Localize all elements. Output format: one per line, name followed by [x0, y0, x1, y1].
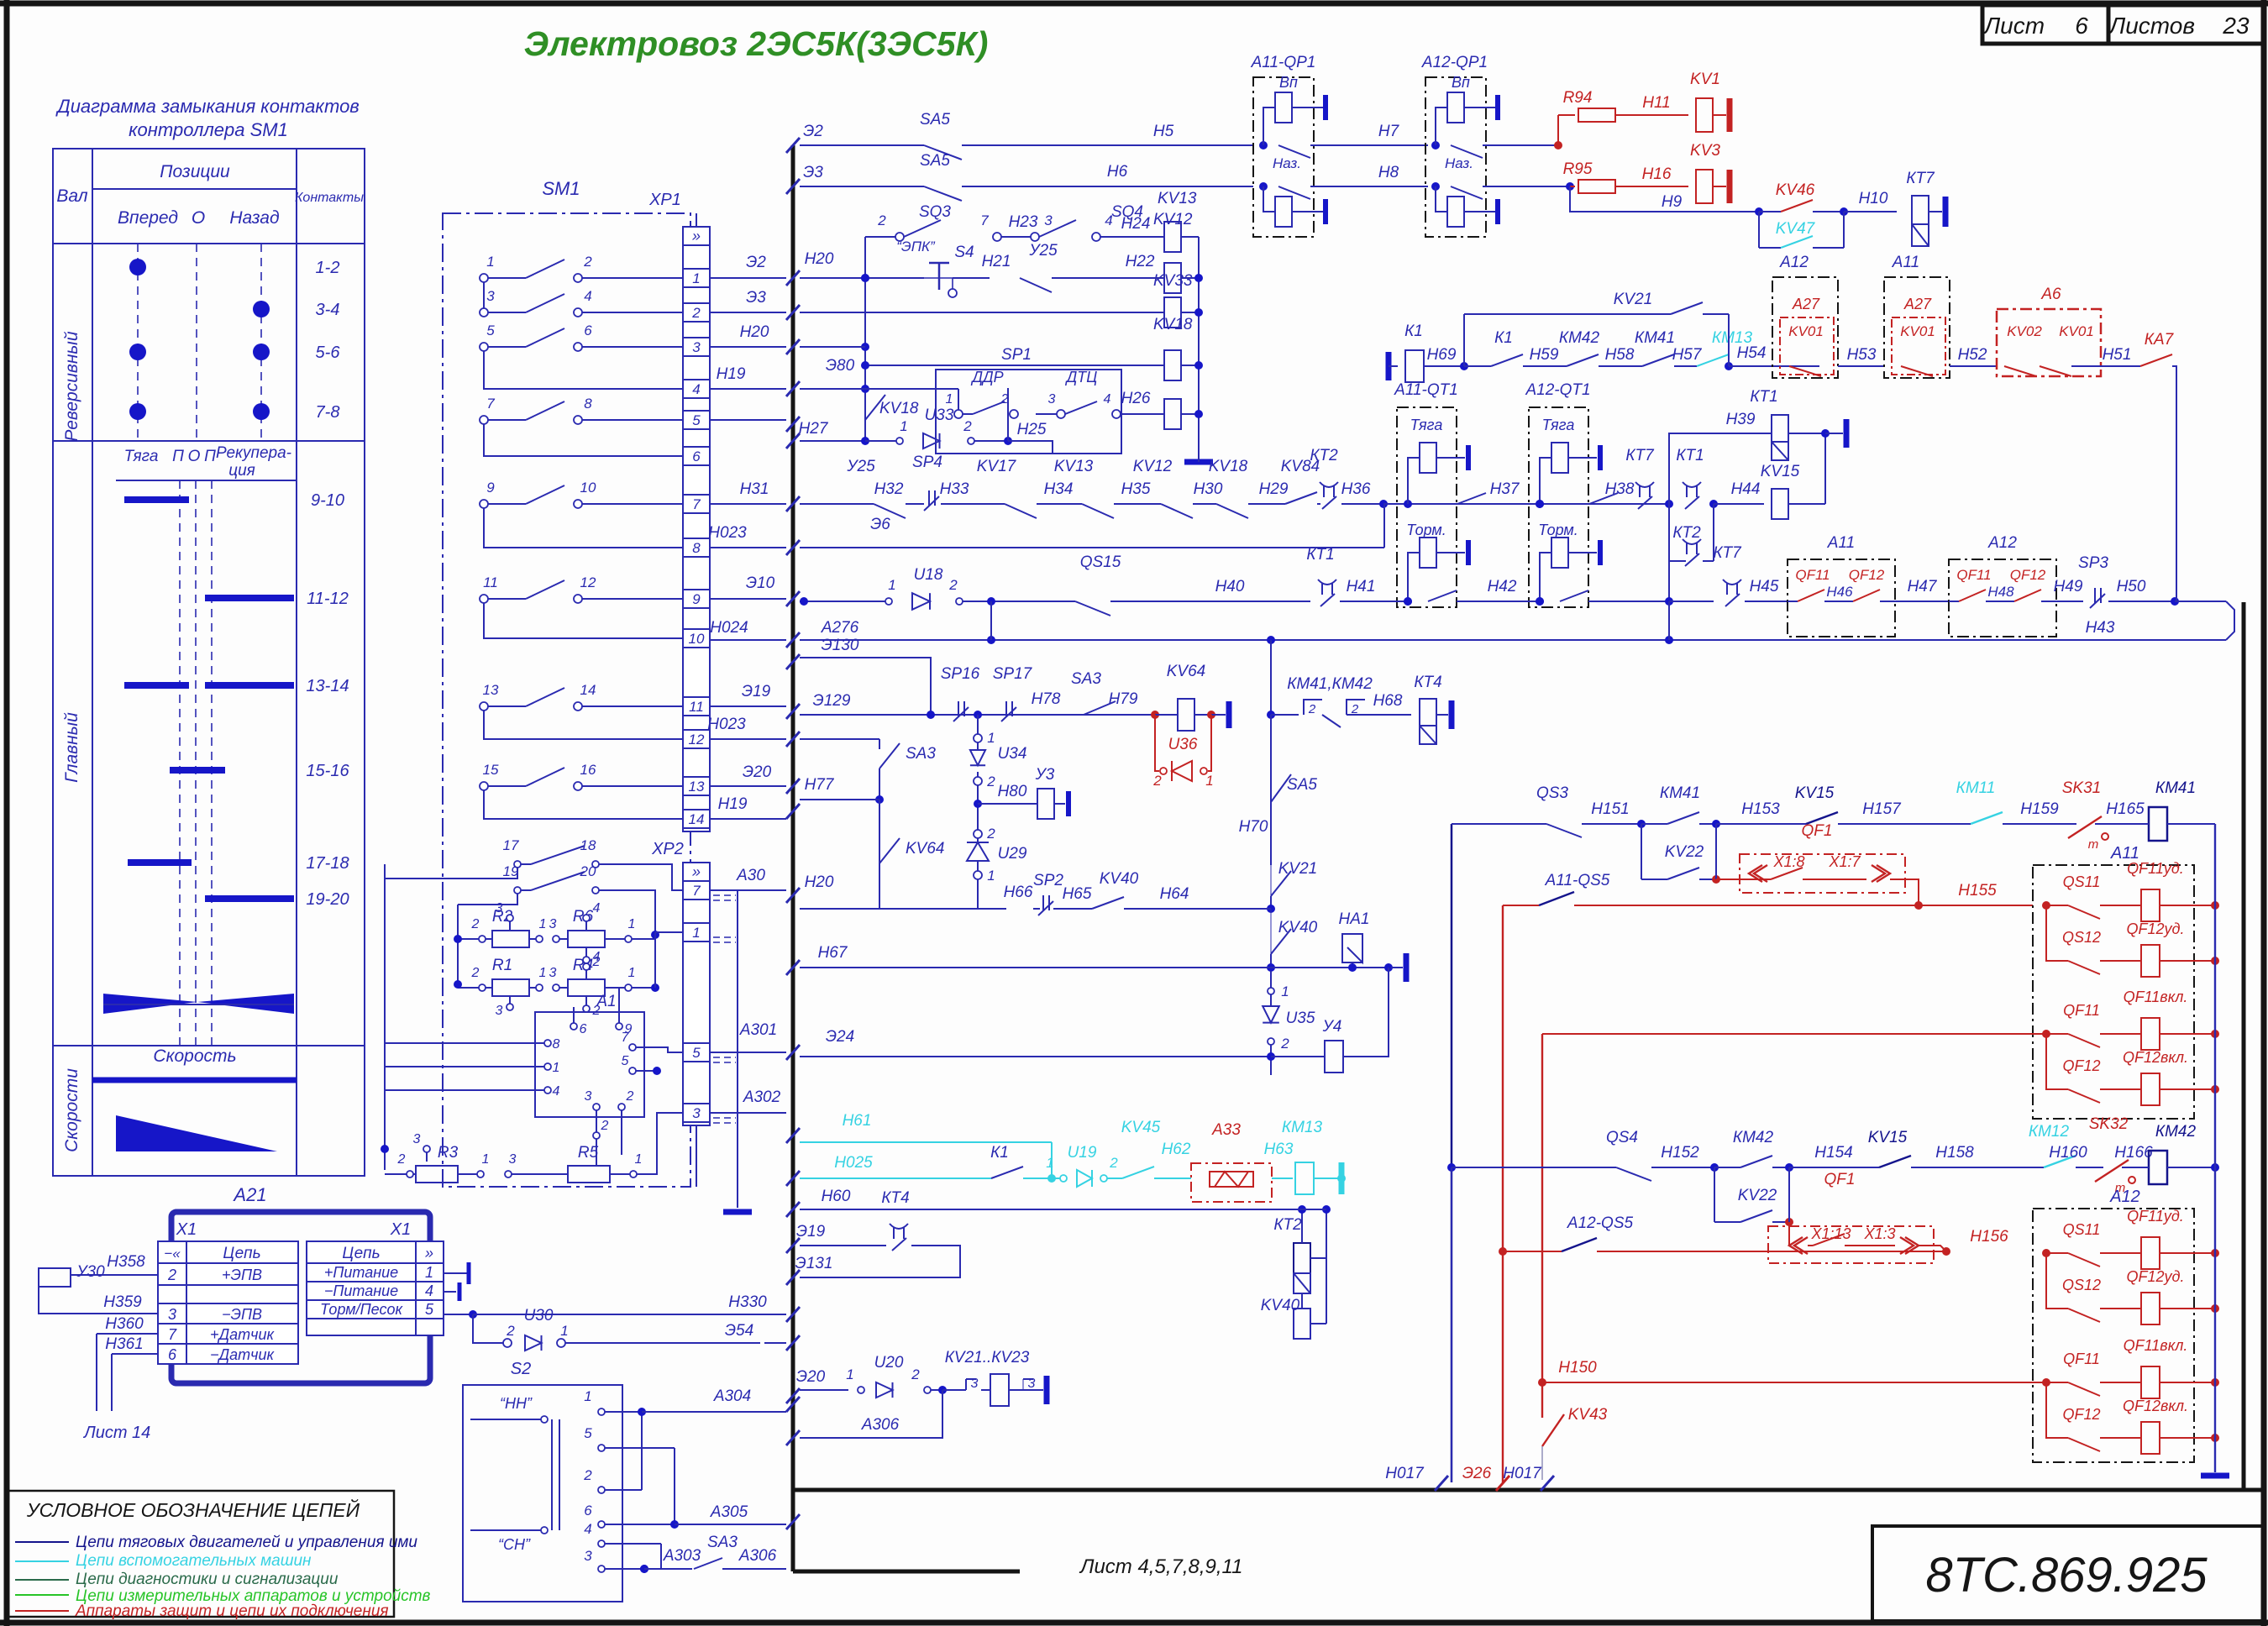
- svg-text:R95: R95: [1563, 160, 1593, 178]
- svg-text:Н45: Н45: [1750, 578, 1779, 595]
- svg-text:1-2: 1-2: [316, 259, 340, 277]
- svg-text:Н361: Н361: [105, 1335, 143, 1353]
- chain right bus: [1310, 1257, 1326, 1259]
- XP1 pin 8: [683, 538, 710, 557]
- svg-text:Н47: Н47: [1908, 578, 1938, 595]
- svg-text:Н79: Н79: [1109, 690, 1138, 708]
- svg-text:1: 1: [692, 270, 700, 286]
- svg-text:ХР2: ХР2: [651, 840, 684, 858]
- svg-text:3: 3: [584, 1548, 592, 1564]
- svg-text:Э131: Э131: [795, 1255, 833, 1272]
- legend line 1: [15, 1541, 69, 1543]
- svg-text:SP1: SP1: [1001, 346, 1032, 364]
- contact KV47 bypass: [1758, 212, 1760, 248]
- svg-text:Электровоз 2ЭС5К(3ЭС5К): Электровоз 2ЭС5К(3ЭС5К): [524, 24, 989, 63]
- ground XP2: [723, 1209, 752, 1215]
- svg-text:Э3: Э3: [803, 164, 823, 181]
- table header: [92, 188, 297, 190]
- svg-text:R3: R3: [438, 1144, 459, 1162]
- svg-text:KV33: KV33: [1153, 272, 1193, 290]
- svg-text:К1: К1: [1494, 329, 1513, 347]
- svg-text:КТ2: КТ2: [1273, 1216, 1302, 1234]
- svg-text:3: 3: [1028, 1377, 1036, 1391]
- svg-text:НА1: НА1: [1339, 910, 1370, 928]
- svg-text:2: 2: [626, 1089, 634, 1104]
- svg-text:QF12вкл.: QF12вкл.: [2123, 1398, 2188, 1414]
- wire Н38 КТ7 КТ1: [1618, 503, 1669, 505]
- svg-text:5: 5: [584, 1425, 592, 1441]
- dashed position lines main: [179, 480, 181, 1046]
- svg-text:SM1: SM1: [542, 178, 580, 199]
- svg-text:Э24: Э24: [826, 1028, 854, 1046]
- svg-text:SA3: SA3: [707, 1534, 738, 1551]
- svg-text:2: 2: [583, 1467, 592, 1483]
- blue bus right: [2214, 824, 2216, 1472]
- XP1 pin 10: [683, 629, 710, 648]
- svg-text:3: 3: [549, 966, 557, 980]
- svg-text:Н77: Н77: [805, 776, 835, 794]
- svg-text:Н51: Н51: [2103, 346, 2132, 364]
- svg-text:QS15: QS15: [1080, 553, 1121, 571]
- svg-text:КМ41,КМ42: КМ41,КМ42: [1287, 675, 1373, 693]
- svg-text:Лист: Лист: [1982, 13, 2045, 39]
- svg-text:2: 2: [911, 1366, 920, 1382]
- svg-text:2: 2: [1152, 773, 1162, 789]
- svg-text:Х1:3: Х1:3: [1863, 1225, 1895, 1242]
- svg-text:Х1: Х1: [176, 1220, 197, 1239]
- wire SQ3 SQ4 row: [864, 237, 866, 278]
- svg-text:3: 3: [168, 1306, 176, 1323]
- svg-text:6: 6: [692, 448, 701, 464]
- svg-text:К1: К1: [990, 1144, 1009, 1162]
- svg-text:Н80: Н80: [998, 783, 1027, 800]
- svg-text:Н32: Н32: [874, 480, 904, 498]
- resistor R95 branch: [1570, 186, 1575, 187]
- svg-text:Н7: Н7: [1378, 123, 1400, 140]
- diode U34 chain: [974, 734, 982, 742]
- svg-text:А276: А276: [821, 619, 859, 637]
- svg-text:Н53: Н53: [1847, 346, 1877, 364]
- svg-text:Э129: Э129: [813, 692, 851, 710]
- svg-text:QS4: QS4: [1606, 1129, 1638, 1146]
- svg-text:2: 2: [471, 917, 480, 931]
- svg-text:QF11вкл.: QF11вкл.: [2124, 989, 2188, 1005]
- svg-text:QF11: QF11: [1795, 567, 1830, 583]
- svg-text:1: 1: [486, 254, 494, 270]
- svg-text:А11-QP1: А11-QP1: [1251, 54, 1316, 71]
- svg-text:Н150: Н150: [1558, 1359, 1597, 1377]
- svg-text:КА7: КА7: [2145, 331, 2175, 349]
- XP2 pin 5: [683, 1043, 710, 1062]
- svg-text:Э26: Э26: [1462, 1465, 1492, 1482]
- coil Тяга A12: [1551, 443, 1568, 473]
- svg-text:Х1:7: Х1:7: [1828, 853, 1861, 870]
- svg-text:1: 1: [692, 925, 700, 941]
- divider thick horizontal: [793, 1488, 2261, 1492]
- svg-text:Н59: Н59: [1530, 346, 1559, 364]
- svg-text:KV21: KV21: [1614, 291, 1652, 308]
- svg-text:18: 18: [580, 837, 596, 853]
- svg-text:12: 12: [689, 732, 705, 747]
- svg-text:Н36: Н36: [1341, 480, 1371, 498]
- contact KV46: [1755, 207, 1763, 216]
- svg-text:KV15: KV15: [1795, 784, 1835, 802]
- svg-text:ХР1: ХР1: [648, 191, 681, 209]
- svg-text:Н68: Н68: [1373, 692, 1403, 710]
- SM1 internal bus: [384, 864, 386, 1170]
- wires to sheet 14: [96, 1334, 97, 1411]
- svg-text:Реверсивный: Реверсивный: [62, 331, 81, 441]
- svg-text:3: 3: [549, 917, 557, 931]
- svg-text:КМ42: КМ42: [1559, 329, 1600, 347]
- svg-text:Н37: Н37: [1490, 480, 1520, 498]
- svg-text:Н023: Н023: [707, 716, 746, 733]
- svg-text:КМ41: КМ41: [2155, 779, 2196, 797]
- svg-text:Н153: Н153: [1741, 800, 1780, 818]
- svg-text:КV21..КV23: КV21..КV23: [945, 1349, 1030, 1366]
- svg-text:SA3: SA3: [906, 745, 936, 763]
- svg-text:4: 4: [584, 1521, 591, 1537]
- coil Торм A11: [1420, 538, 1436, 568]
- wire SM1 pin 13 tie: [484, 711, 683, 739]
- svg-text:12: 12: [580, 574, 596, 590]
- svg-text:Вп: Вп: [1279, 74, 1298, 91]
- svg-text:QF11уд.: QF11уд.: [2127, 860, 2184, 877]
- svg-text:Торм.: Торм.: [1406, 522, 1446, 538]
- svg-text:А27: А27: [1792, 296, 1820, 312]
- svg-text:SP3: SP3: [2078, 554, 2108, 572]
- svg-text:7: 7: [692, 883, 701, 899]
- svg-text:Э6: Э6: [870, 516, 890, 533]
- svg-text:+ЭПВ: +ЭПВ: [222, 1267, 262, 1283]
- bow-tie mark: [103, 994, 197, 1014]
- svg-text:13: 13: [483, 682, 499, 698]
- svg-text:5: 5: [486, 323, 495, 338]
- svg-text:6: 6: [584, 1503, 592, 1518]
- svg-text:А30: А30: [736, 867, 765, 884]
- svg-text:U18: U18: [914, 566, 943, 584]
- coil Торм A12: [1551, 538, 1568, 568]
- red bus 2: [1541, 1034, 1543, 1382]
- svg-text:3: 3: [486, 288, 495, 304]
- svg-text:KV21: KV21: [1278, 860, 1317, 878]
- svg-text:SP2: SP2: [1033, 872, 1063, 889]
- svg-text:Н017: Н017: [1503, 1465, 1542, 1482]
- svg-text:6: 6: [2075, 13, 2088, 39]
- svg-text:KV15: KV15: [1868, 1129, 1908, 1146]
- svg-text:Н64: Н64: [1160, 885, 1189, 903]
- coil Тяга A11: [1420, 443, 1436, 473]
- XP1 pin 4: [683, 380, 710, 398]
- svg-text:QF1: QF1: [1824, 1171, 1856, 1188]
- svg-text:4: 4: [425, 1282, 433, 1299]
- svg-text:3: 3: [1044, 212, 1053, 228]
- node R95 junction: [1566, 182, 1574, 191]
- svg-text:контроллера SM1: контроллера SM1: [129, 119, 288, 140]
- svg-text:1: 1: [987, 730, 995, 746]
- svg-text:5: 5: [692, 412, 701, 428]
- svg-text:QF11вкл.: QF11вкл.: [2124, 1337, 2188, 1354]
- svg-text:2: 2: [1280, 1036, 1289, 1052]
- svg-text:+Датчик: +Датчик: [210, 1326, 276, 1343]
- svg-text:QS11: QS11: [2063, 873, 2101, 890]
- wire Н66 row: [879, 908, 1006, 910]
- svg-text:Н78: Н78: [1032, 690, 1061, 708]
- svg-text:КТ1: КТ1: [1676, 447, 1704, 464]
- svg-text:KV12: KV12: [1153, 211, 1193, 228]
- svg-text:Н67: Н67: [818, 944, 848, 962]
- legend line 4: [15, 1594, 69, 1596]
- svg-text:KV18: KV18: [879, 400, 919, 417]
- svg-text:QS12: QS12: [2062, 929, 2101, 946]
- svg-text:Э20: Э20: [743, 763, 772, 781]
- svg-text:Н33: Н33: [940, 480, 969, 498]
- svg-text:Торм.: Торм.: [1538, 522, 1578, 538]
- wire SM1 pin 11 tie: [484, 603, 683, 638]
- svg-text:Н40: Н40: [1215, 578, 1245, 595]
- svg-text:11-12: 11-12: [307, 590, 349, 608]
- svg-text:Н66: Н66: [1004, 884, 1033, 901]
- svg-text:3: 3: [496, 901, 503, 915]
- svg-text:А21: А21: [232, 1184, 266, 1205]
- svg-text:О: О: [192, 208, 205, 228]
- wire SM1 pin 9 tie: [484, 508, 683, 548]
- svg-text:QF11уд.: QF11уд.: [2127, 1208, 2184, 1225]
- svg-text:1: 1: [584, 1388, 591, 1404]
- svg-text:KV45: KV45: [1121, 1119, 1161, 1136]
- svg-text:3-4: 3-4: [316, 301, 340, 319]
- svg-text:3: 3: [496, 1004, 503, 1018]
- svg-text:SP17: SP17: [993, 665, 1033, 683]
- svg-text:5-6: 5-6: [316, 344, 341, 362]
- svg-text:11: 11: [483, 574, 498, 590]
- svg-text:QS11: QS11: [2063, 1221, 2101, 1238]
- svg-text:SK31: SK31: [2062, 779, 2101, 797]
- svg-text:7: 7: [692, 496, 701, 512]
- svg-text:КМ42: КМ42: [2155, 1123, 2197, 1141]
- svg-text:П: П: [172, 448, 184, 465]
- svg-text:KV43: KV43: [1568, 1406, 1608, 1424]
- breaker A12-QP1 Наз contact: [1431, 182, 1440, 191]
- svg-text:УСЛОВНОЕ ОБОЗНАЧЕНИЕ ЦЕПЕЙ: УСЛОВНОЕ ОБОЗНАЧЕНИЕ ЦЕПЕЙ: [26, 1498, 360, 1521]
- device У30: [39, 1268, 71, 1287]
- svg-text:Н42: Н42: [1488, 578, 1517, 595]
- svg-text:Н154: Н154: [1814, 1144, 1852, 1162]
- svg-text:Н62: Н62: [1162, 1141, 1191, 1158]
- XP1 pin 11: [683, 697, 710, 716]
- svg-text:Н9: Н9: [1662, 193, 1683, 211]
- svg-text:»: »: [692, 228, 701, 244]
- svg-text:17-18: 17-18: [306, 854, 349, 873]
- svg-text:А12: А12: [2109, 1188, 2140, 1206]
- legend line 2: [15, 1560, 69, 1562]
- svg-text:Вал: Вал: [56, 186, 87, 206]
- svg-text:А302: А302: [743, 1088, 781, 1106]
- svg-text:7: 7: [622, 1031, 630, 1045]
- svg-text:А6: А6: [2040, 286, 2061, 303]
- svg-text:Э20: Э20: [796, 1368, 826, 1386]
- svg-text:Торм/Песок: Торм/Песок: [320, 1301, 403, 1318]
- svg-text:KV18: KV18: [1153, 316, 1193, 333]
- svg-text:QS3: QS3: [1536, 784, 1568, 802]
- svg-text:Н160: Н160: [2049, 1144, 2087, 1162]
- svg-text:Н20: Н20: [805, 250, 834, 268]
- svg-text:4: 4: [1104, 392, 1111, 406]
- svg-text:Н57: Н57: [1672, 346, 1703, 364]
- svg-text:Э130: Э130: [822, 637, 859, 654]
- svg-text:Н19: Н19: [718, 795, 748, 813]
- wire Н023 cell12 feed: [800, 738, 879, 740]
- svg-text:А12: А12: [1987, 534, 2017, 552]
- svg-text:Н49: Н49: [2054, 578, 2083, 595]
- svg-text:Цепь: Цепь: [342, 1245, 380, 1262]
- svg-text:КМ42: КМ42: [1733, 1129, 1774, 1146]
- svg-text:6: 6: [580, 1022, 587, 1036]
- svg-text:3: 3: [692, 339, 701, 355]
- svg-text:1: 1: [987, 868, 995, 884]
- svg-text:Тяга: Тяга: [1542, 417, 1575, 433]
- svg-text:4: 4: [593, 901, 601, 915]
- svg-text:Скорость: Скорость: [153, 1046, 236, 1066]
- svg-text:А11: А11: [1892, 254, 1919, 271]
- svg-text:20: 20: [580, 863, 596, 879]
- XP2 pin 1: [683, 923, 710, 942]
- svg-text:4: 4: [692, 381, 700, 397]
- svg-text:Э19: Э19: [796, 1223, 826, 1240]
- svg-text:2: 2: [601, 1119, 609, 1133]
- svg-text:КТ4: КТ4: [1414, 674, 1441, 691]
- svg-text:KV64: KV64: [906, 840, 944, 858]
- svg-text:Н65: Н65: [1063, 885, 1092, 903]
- XP1 pin 14: [683, 810, 710, 828]
- svg-text:Н44: Н44: [1731, 480, 1761, 498]
- svg-text:1: 1: [1205, 773, 1213, 789]
- breaker A11-QP1 Наз contact: [1259, 182, 1268, 191]
- svg-text:Н48: Н48: [1987, 584, 2014, 600]
- svg-text:QF12уд.: QF12уд.: [2127, 1268, 2185, 1285]
- svg-text:Н5: Н5: [1153, 123, 1174, 140]
- svg-text:QF12: QF12: [2062, 1057, 2100, 1074]
- svg-text:Н23: Н23: [1009, 213, 1038, 231]
- svg-text:А306: А306: [738, 1547, 777, 1565]
- svg-text:А305: А305: [710, 1503, 748, 1521]
- svg-text:КМ13: КМ13: [1282, 1119, 1323, 1136]
- svg-text:Э2: Э2: [746, 254, 766, 271]
- svg-text:KV46: KV46: [1776, 181, 1815, 199]
- svg-text:Н157: Н157: [1862, 800, 1902, 818]
- svg-text:К1: К1: [1404, 323, 1423, 340]
- svg-text:Н54: Н54: [1737, 344, 1767, 362]
- svg-text:Н151: Н151: [1591, 800, 1629, 818]
- ground coils: [1184, 459, 1213, 465]
- svg-text:9: 9: [486, 480, 495, 496]
- svg-text:4: 4: [553, 1084, 560, 1099]
- svg-text:2: 2: [963, 418, 972, 434]
- svg-text:Н024: Н024: [710, 619, 748, 637]
- divider thick vertical: [791, 145, 795, 1571]
- svg-text:10: 10: [580, 480, 596, 496]
- svg-text:1: 1: [560, 1323, 568, 1339]
- speed wedge: [116, 1115, 277, 1151]
- svg-text:Н50: Н50: [2117, 578, 2146, 595]
- svg-text:2: 2: [1308, 702, 1316, 716]
- svg-text:3: 3: [971, 1377, 979, 1391]
- svg-text:КМ12: КМ12: [2029, 1123, 2070, 1141]
- svg-text:Наз.: Наз.: [1445, 155, 1473, 171]
- contact dots: [129, 259, 146, 275]
- svg-text:KV22: KV22: [1738, 1187, 1777, 1204]
- svg-text:2: 2: [397, 1152, 406, 1167]
- svg-text:Скорости: Скорости: [62, 1068, 81, 1152]
- svg-text:Вп: Вп: [1452, 74, 1470, 91]
- svg-text:KV02: KV02: [2007, 323, 2042, 339]
- svg-text:Н25: Н25: [1017, 421, 1047, 438]
- svg-text:Н69: Н69: [1427, 346, 1457, 364]
- svg-text:КТ7: КТ7: [1713, 544, 1742, 562]
- wire SM1 pin 15 tie: [484, 790, 683, 819]
- svg-text:1: 1: [1281, 983, 1289, 999]
- svg-text:U34: U34: [998, 745, 1027, 763]
- diode U29 chain: [974, 830, 982, 838]
- svg-text:Н58: Н58: [1605, 346, 1635, 364]
- svg-text:Н41: Н41: [1347, 578, 1376, 595]
- svg-text:SA5: SA5: [920, 152, 950, 170]
- diode U36 bypass: [1155, 715, 1159, 771]
- svg-text:Цепь: Цепь: [223, 1245, 260, 1262]
- svg-text:QF12вкл.: QF12вкл.: [2123, 1049, 2188, 1066]
- svg-text:16: 16: [580, 762, 596, 778]
- table frame: [53, 149, 365, 1176]
- svg-text:Н360: Н360: [105, 1315, 144, 1333]
- svg-text:QF12уд.: QF12уд.: [2127, 921, 2185, 937]
- svg-text:8: 8: [584, 396, 592, 412]
- svg-text:У25: У25: [1028, 242, 1058, 260]
- svg-text:R1: R1: [492, 957, 512, 974]
- svg-text:Н017: Н017: [1385, 1465, 1425, 1482]
- main blue bus left: [1451, 824, 1453, 1482]
- svg-text:Н8: Н8: [1378, 164, 1399, 181]
- svg-text:Н023: Н023: [708, 524, 747, 542]
- svg-text:U20: U20: [874, 1354, 904, 1372]
- svg-text:КТ7: КТ7: [1906, 170, 1935, 187]
- wire SM1 pin 7 tie: [484, 424, 683, 456]
- XP1 pin 7: [683, 495, 710, 513]
- svg-text:Н330: Н330: [728, 1293, 767, 1311]
- svg-text:8ТС.869.925: 8ТС.869.925: [1925, 1548, 2208, 1602]
- svg-text:KV01: KV01: [1788, 323, 1824, 339]
- wire SM1 pin 5 tie: [484, 351, 683, 389]
- svg-text:KV12: KV12: [1133, 458, 1173, 475]
- svg-text:S4: S4: [954, 244, 974, 261]
- svg-text:1: 1: [1046, 1155, 1053, 1171]
- svg-text:А303: А303: [663, 1547, 701, 1565]
- svg-text:11: 11: [689, 699, 704, 715]
- svg-text:14: 14: [689, 811, 705, 827]
- svg-text:У25: У25: [846, 458, 875, 475]
- svg-text:А301: А301: [739, 1021, 777, 1039]
- svg-text:QF12: QF12: [2062, 1406, 2100, 1423]
- S2 selector bars: [551, 1419, 553, 1530]
- svg-text:1: 1: [425, 1264, 433, 1281]
- svg-text:10: 10: [689, 631, 705, 647]
- svg-text:КМ41: КМ41: [1660, 784, 1700, 802]
- contact KV21 bypass row: [1463, 314, 1465, 366]
- svg-text:Н31: Н31: [740, 480, 769, 498]
- XP2 pin 3: [683, 1104, 710, 1122]
- svg-text:SA5: SA5: [1287, 776, 1317, 794]
- svg-text:Н22: Н22: [1126, 253, 1155, 270]
- svg-text:КТ7: КТ7: [1625, 447, 1655, 464]
